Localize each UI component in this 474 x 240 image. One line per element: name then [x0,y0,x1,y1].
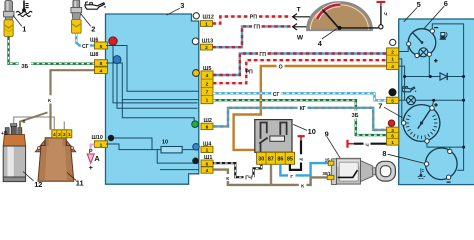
panel wiring: fuel gauge bottom to diode line [428,57,430,77]
wire О (orange) panel pin 4 to relay 30 [234,66,387,152]
svg-text:+Б: +Б [1,131,8,137]
svg-text:7: 7 [378,101,382,110]
svg-text:2: 2 [391,50,394,56]
connector Ш5 socket [193,70,200,77]
svg-text:РП: РП [246,70,253,76]
svg-text:4: 4 [53,132,56,138]
junction points [403,75,406,78]
svg-text:Г: Г [290,174,293,180]
panel connector socket (white) [390,39,396,45]
svg-text:1: 1 [391,57,394,63]
svg-text:Ш12: Ш12 [203,14,214,20]
temp icon in panel [418,168,426,178]
connector Ш2 socket [192,121,199,128]
plus mark [434,59,438,63]
arrow chevrons into T [293,14,311,20]
wire СГ sensor2 to Ш6 pin 5 (blue/white) [76,33,94,46]
instrument panel unit box (item 5) [399,19,474,185]
connector Ш8 pin 4 [95,67,108,74]
svg-text:ГП: ГП [253,25,260,31]
svg-text:5: 5 [100,44,103,50]
svg-text:7: 7 [206,90,209,96]
wire К Ш1/4 to ignition switch 30/1 (brown) [213,170,327,185]
svg-text:6: 6 [391,134,394,140]
panel wiring: pin4 down to diode line [399,66,405,100]
svg-text:11: 11 [76,179,84,188]
connector Ш6 pin 5 [95,42,108,49]
svg-text:30/1: 30/1 [322,171,331,176]
svg-text:5: 5 [391,99,394,105]
wire from gauge 4 to tap (black) [340,6,381,28]
svg-text:3: 3 [58,132,61,138]
coolant temperature gauge icon [16,1,32,17]
diode [440,73,447,80]
wire КГ Ш2/6 to panel pin 3 (brown/blue) [213,108,387,130]
svg-text:85: 85 [287,156,293,162]
svg-text:10: 10 [162,139,168,145]
svg-text:W: W [297,35,304,42]
wire Р (pink) from Ш10 pin 1 to battery arrow [91,145,95,149]
panel wiring: right bus down to temp gauge [457,77,463,171]
svg-text:Ш10: Ш10 [92,135,103,141]
ignition switch (item 9) [331,158,395,184]
panel wiring: pin1 down to voltmeter [399,59,402,123]
svg-text:2: 2 [206,81,209,87]
arrow chevrons into W [293,24,310,30]
svg-text:10: 10 [308,127,316,136]
svg-text:ГЧ: ГЧ [245,176,252,182]
svg-text:Т: Т [297,6,301,13]
svg-text:К: К [226,176,229,182]
connector Ш4 socket [193,144,200,151]
wire Г relay 86 to switch 15 (light blue) [280,163,328,175]
voltmeter gauge (item 7) [403,105,440,142]
panel wiring: pin2 to fuel gauge [399,46,409,51]
svg-text:2: 2 [63,132,66,138]
red point (lamp) [109,37,117,45]
panel connector socket (black) [389,88,397,96]
distributor connector pins 4 3 2 1 [52,130,72,138]
svg-text:87: 87 [268,156,274,162]
fuel pump icon [440,32,445,39]
svg-text:К: К [301,183,304,189]
svg-text:ЗБ: ЗБ [21,64,28,70]
wire ГП Ш5/4 to panel pin 2 (blue/red) [213,54,387,76]
svg-text:ЗБ: ЗБ [352,113,359,119]
connector Ш8 pin 8 [95,60,108,67]
wire from relay 87 to ground run (grey) [270,164,272,185]
oil pressure icon (oil can) [85,2,106,9]
wire К coil terminal to ignition feed (brown) [20,112,48,127]
svg-text:3: 3 [391,128,394,134]
switch terminal 30/1 [327,175,334,179]
svg-text:1: 1 [205,21,208,27]
internal trace Ш6/5 to Ш5/7 [106,46,199,92]
internal trace Ш8/8 to Ш5/1 [106,63,199,100]
wire СГ Ш5/7 to panel pin 5 (blue/white) [213,93,387,100]
wire Ч relay 85 to tachometer tap (black) [290,140,301,170]
svg-text:8: 8 [100,61,103,67]
connector Ш12 socket [193,13,199,19]
svg-text:30: 30 [258,156,264,162]
minus mark [434,27,438,29]
internal trace Ш10/1 through resistor to Ш4/1 [106,144,199,150]
svg-text:+: + [89,163,94,172]
panel wiring: lamp row [399,100,464,106]
sensor 2 (oil pressure sender) [71,0,82,33]
connector Ш13 socket [192,38,199,45]
svg-text:СГ: СГ [82,44,89,50]
black point [108,135,114,141]
svg-text:Ш8: Ш8 [90,52,98,58]
internal trace Ш1/6 [157,150,199,163]
terminal tap symbol (red T) above gauge 4 [380,2,382,5]
low fuel warning lamp [419,48,428,57]
blue point (lamp) [113,56,121,64]
internal trace from blue lamp point [117,63,198,109]
wire К from Ш8 pin 4 down to distributor (brown) [51,70,95,130]
terminal tap symbol (red T) at relay [300,137,302,140]
panel pins 2 1 4 [387,48,399,70]
svg-text:Ш13: Ш13 [202,39,213,45]
svg-text:3: 3 [180,1,184,10]
coolant temp gauge (item 8) [426,148,458,180]
svg-text:ГП: ГП [259,52,266,58]
wire ГП Ш13/2 to gauge W terminal (blue/red) [213,26,291,47]
svg-text:6: 6 [206,125,209,131]
svg-text:4: 4 [100,68,103,74]
gauge 6 terminals [407,42,411,46]
relay internal contact symbol [259,123,286,153]
svg-text:1: 1 [391,140,394,146]
distributor / ignition module (item 11) [35,130,76,182]
wire РП Ш12/1 to gauge T terminal (red/white) [213,17,291,24]
svg-text:1: 1 [22,24,26,33]
svg-text:2: 2 [205,45,208,51]
panel wiring: fuel gauge top loop [432,24,463,77]
svg-text:6: 6 [444,0,448,8]
svg-text:А: А [94,154,100,163]
internal trace branch to Ш2 point [122,100,199,127]
svg-text:9: 9 [325,130,329,139]
relay (item 10) body [255,120,292,153]
panel pin 5 [387,97,399,103]
svg-text:К: К [48,98,51,104]
svg-text:КГ: КГ [300,106,306,112]
svg-text:1: 1 [100,142,103,148]
wire ЗБ sensor1 to Ш8 pin 8 (green/white) [9,36,95,63]
svg-text:8: 8 [382,149,386,158]
instrument cluster printed circuit board (item 3) [106,14,199,184]
panel connector socket (red) [388,120,395,127]
wire ГЧ Ш1/6 to relay 30 (white/black) [213,163,261,177]
terminal tap symbol (red T) at ignition switch [346,140,348,148]
relay terminals 30 87 86 85 [257,152,295,164]
svg-text:15: 15 [325,157,331,162]
connector Ш1 socket [192,158,199,165]
svg-text:1: 1 [206,98,209,104]
svg-text:4: 4 [206,168,209,174]
switch terminal 15 [328,161,334,165]
svg-text:О: О [279,65,283,71]
internal trace Ш1/4 [160,169,199,171]
svg-text:2: 2 [91,24,95,33]
fuel gauge (item 6) [408,29,436,57]
svg-text:СГ: СГ [273,92,280,98]
svg-text:4: 4 [391,64,394,70]
resistor 10 [161,147,182,153]
panel wiring: voltmeter bottom to temp gauge [427,143,464,149]
oil pressure warning lamp [407,96,416,105]
svg-text:1: 1 [68,132,71,138]
sensor 1 (coolant temperature sender) [4,1,14,37]
internal trace from red lamp point [113,44,198,103]
svg-text:4: 4 [206,73,209,79]
svg-text:К: К [23,119,26,125]
wire РП Ш5/2 to panel pin 1 (red/white) [213,60,387,83]
panel pins 3 6 1 [387,127,399,145]
wire ЗБ Ш5/1 to panel pin 6 (green/white) [213,100,387,135]
oil can icon [402,86,416,92]
svg-text:РП: РП [250,15,257,21]
battery feed arrow А [87,154,94,163]
plus mark voltmeter [434,103,438,107]
HT lead coil to distributor [14,117,65,130]
wire Ч tap to panel pin 1 (black) [354,143,387,145]
ignition coil (item 12) [3,124,25,182]
svg-text:1: 1 [206,148,209,154]
econometer gauge (item 4) [307,2,371,30]
panel wiring: diode line [405,76,464,78]
connector Ш10 pin 1 [95,141,108,148]
svg-text:86: 86 [277,156,283,162]
internal trace from black point [114,138,153,150]
relay coil symbol [270,136,285,141]
